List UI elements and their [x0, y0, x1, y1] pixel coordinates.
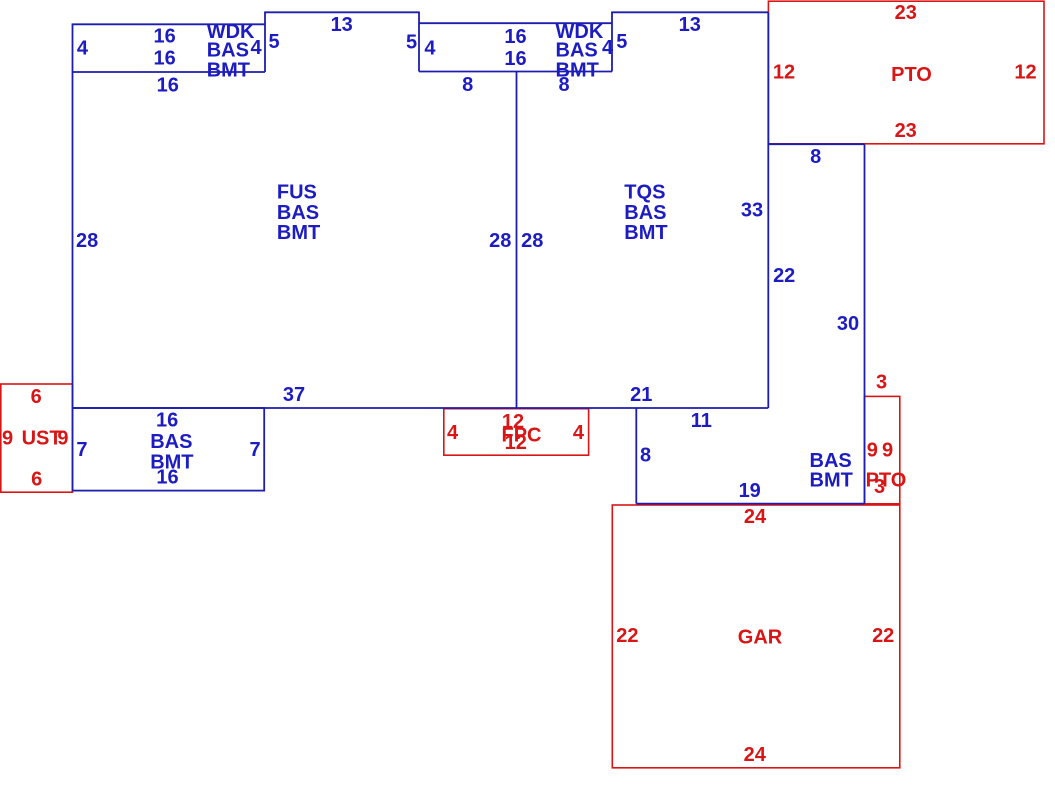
- PTO (upper right) area outline: [768, 1, 1044, 144]
- svg-text:28: 28: [489, 230, 511, 252]
- WDK2 right wall / bump2 left wall: [611, 12, 613, 71]
- lower-left BAS/BMT box outline: [73, 408, 265, 491]
- lower-right box west wall: [635, 408, 637, 504]
- svg-text:9: 9: [57, 428, 68, 450]
- svg-text:11: 11: [691, 410, 712, 432]
- svg-text:28: 28: [76, 230, 98, 252]
- svg-text:4: 4: [424, 38, 436, 60]
- svg-text:4: 4: [573, 422, 585, 444]
- svg-text:9: 9: [867, 439, 878, 461]
- west wall (WDK1 + FUS): [72, 24, 74, 409]
- svg-text:BAS: BAS: [277, 202, 319, 224]
- south wall of FUS/TQS: [73, 407, 769, 409]
- svg-text:23: 23: [895, 120, 917, 142]
- svg-text:6: 6: [31, 468, 42, 490]
- right strip top wall: [768, 143, 864, 145]
- svg-text:8: 8: [640, 445, 651, 467]
- FUS/TQS divider wall: [516, 72, 518, 409]
- svg-text:PTO: PTO: [891, 64, 932, 86]
- svg-text:8: 8: [462, 74, 473, 96]
- svg-text:BAS: BAS: [207, 39, 249, 61]
- bump1 top wall: [264, 11, 420, 13]
- svg-text:5: 5: [269, 31, 280, 53]
- svg-text:GAR: GAR: [738, 627, 783, 649]
- svg-text:BAS: BAS: [556, 39, 598, 61]
- right strip east wall: [864, 144, 866, 503]
- svg-text:8: 8: [558, 74, 569, 96]
- svg-text:16: 16: [504, 26, 526, 48]
- svg-text:4: 4: [251, 37, 263, 59]
- svg-text:4: 4: [602, 37, 614, 59]
- svg-text:12: 12: [1014, 62, 1036, 84]
- GAR area outline: [612, 505, 900, 768]
- svg-text:FUS: FUS: [277, 182, 317, 204]
- PTO (right side) area outline: [865, 396, 900, 503]
- svg-text:22: 22: [872, 625, 894, 647]
- svg-text:3: 3: [874, 476, 885, 498]
- svg-text:30: 30: [837, 313, 859, 335]
- svg-text:21: 21: [630, 384, 652, 406]
- WDK1 top wall: [72, 23, 265, 25]
- svg-text:37: 37: [283, 384, 305, 406]
- svg-text:4: 4: [77, 38, 89, 60]
- svg-text:23: 23: [895, 2, 917, 24]
- svg-text:9: 9: [882, 439, 893, 461]
- WDK2 top wall: [419, 22, 612, 24]
- svg-text:22: 22: [616, 625, 638, 647]
- svg-text:12: 12: [505, 432, 527, 454]
- svg-text:33: 33: [741, 199, 763, 221]
- bump1 left wall / WDK1 right wall: [264, 12, 266, 72]
- svg-text:16: 16: [156, 410, 178, 432]
- svg-text:BMT: BMT: [277, 222, 320, 244]
- FPC area outline: [444, 409, 589, 456]
- svg-text:16: 16: [153, 48, 175, 70]
- svg-text:24: 24: [744, 744, 767, 766]
- bump1 right wall / WDK2 left wall: [418, 12, 420, 71]
- svg-text:22: 22: [773, 265, 795, 287]
- svg-text:9: 9: [2, 428, 13, 450]
- svg-text:5: 5: [406, 31, 417, 53]
- bump2 top wall: [611, 11, 768, 13]
- svg-text:BMT: BMT: [624, 222, 667, 244]
- svg-text:PTO: PTO: [866, 469, 907, 491]
- svg-text:7: 7: [76, 439, 87, 461]
- svg-text:5: 5: [616, 31, 627, 53]
- svg-text:BAS: BAS: [624, 202, 666, 224]
- svg-text:16: 16: [157, 74, 179, 96]
- lower-right box south wall: [636, 503, 864, 505]
- east wall of TQS: [767, 12, 769, 408]
- svg-text:8: 8: [810, 146, 821, 168]
- svg-text:BMT: BMT: [207, 59, 250, 81]
- svg-text:28: 28: [521, 230, 543, 252]
- svg-text:16: 16: [504, 48, 526, 70]
- UST area outline: [1, 384, 73, 492]
- svg-text:24: 24: [744, 506, 767, 528]
- svg-text:7: 7: [249, 439, 260, 461]
- svg-text:4: 4: [447, 422, 459, 444]
- svg-text:3: 3: [876, 372, 887, 394]
- svg-text:13: 13: [331, 14, 353, 36]
- svg-text:UST: UST: [22, 428, 62, 450]
- svg-text:BMT: BMT: [810, 469, 853, 491]
- svg-text:16: 16: [156, 467, 178, 489]
- svg-text:BAS: BAS: [150, 431, 192, 453]
- WDK2 bottom wall: [419, 71, 612, 73]
- svg-text:6: 6: [31, 386, 42, 408]
- svg-text:19: 19: [739, 480, 761, 502]
- svg-text:12: 12: [773, 62, 795, 84]
- svg-text:TQS: TQS: [624, 182, 665, 204]
- WDK1 bottom wall: [73, 71, 266, 73]
- svg-text:16: 16: [153, 26, 175, 48]
- svg-text:13: 13: [679, 14, 701, 36]
